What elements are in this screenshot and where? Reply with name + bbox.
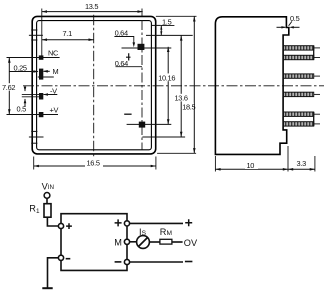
dim 10.16 (167, 47, 169, 125)
seam extension right bottom (13.6 lower reference) (142, 136, 185, 138)
pin NC (39, 55, 44, 59)
pin M lower leader (38, 76, 54, 78)
svg-text:NC: NC (48, 49, 59, 58)
svg-text:13.5: 13.5 (85, 2, 98, 11)
wire minus output (130, 261, 183, 263)
wire R1 to plus input (47, 217, 58, 226)
dim 10 bottom side (214, 156, 216, 172)
wire VIN to R1 (46, 198, 48, 203)
wire M to IS (130, 241, 137, 243)
pin leader horizontal top (122, 47, 172, 49)
terminal minus output (124, 259, 129, 264)
polarity plus mark (126, 53, 131, 60)
wall tick top-right (152, 24, 161, 26)
wall tick bottom-left long (29, 136, 44, 138)
module box (61, 214, 127, 271)
svg-text:3.3: 3.3 (297, 159, 307, 168)
wire IS to RM (149, 241, 160, 243)
dim 0.5 left (22, 94, 42, 96)
wall tick bottom-left short (31, 130, 37, 132)
side pin 5 (283, 112, 314, 116)
dim 13.5 top (42, 11, 143, 13)
pin -V (39, 93, 43, 100)
svg-text:7.62: 7.62 (2, 83, 15, 92)
side pin 1 (283, 46, 314, 50)
svg-text:7.1: 7.1 (63, 29, 73, 38)
svg-text:M: M (53, 67, 59, 76)
wall tick bottom-left short2 (31, 142, 37, 144)
terminal plus input (58, 223, 63, 228)
pin pair 5-6 tip bar (313, 112, 315, 126)
terminal plus output (124, 221, 129, 226)
dim 0.25 line and arrow (10, 71, 38, 73)
label M leader arrow (44, 70, 50, 72)
svg-text:0.5: 0.5 (290, 14, 300, 23)
svg-text:+V: +V (50, 106, 59, 115)
svg-text:-V: -V (50, 86, 57, 95)
pin leader horizontal bottom (127, 123, 172, 125)
wire minus to ground (48, 258, 59, 288)
svg-text:10.16: 10.16 (158, 73, 175, 82)
dim 0.5 side view (277, 26, 286, 28)
polarity minus mark (124, 113, 131, 115)
square pin top-right (138, 44, 145, 50)
pin +V leader (7, 114, 59, 116)
dim 13.6 (180, 35, 182, 137)
pin M (39, 69, 43, 80)
side pin 4 (283, 92, 314, 96)
svg-text:0.25: 0.25 (14, 63, 27, 72)
dim 7.1 (42, 39, 94, 41)
terminal M output (124, 239, 129, 244)
pin NC leader (7, 57, 60, 59)
svg-text:OV: OV (184, 238, 198, 248)
svg-text:0.5: 0.5 (17, 104, 27, 113)
label minus output end (185, 261, 193, 263)
svg-text:18.5: 18.5 (182, 102, 195, 111)
square pin bottom-right (139, 122, 145, 128)
side pin 2 (283, 55, 314, 59)
wall tick top-left short (31, 29, 37, 31)
wire RM to OV (172, 241, 183, 243)
dim 7.62 vertical (8, 58, 10, 115)
seam extension right top (13.6 upper reference) (146, 34, 193, 36)
horizontal centerline (23, 85, 324, 87)
extension line 13.5 left (41, 9, 43, 58)
label plus output inner (115, 219, 122, 226)
resistor RM (160, 239, 172, 244)
side pin 6 (283, 122, 314, 126)
pin -V leader (44, 94, 58, 96)
svg-text:13.6: 13.6 (175, 94, 188, 103)
side pin 3 (283, 74, 314, 78)
svg-text:M: M (114, 237, 122, 247)
top view outer case outline (32, 16, 156, 154)
vertical pin axis line right column (141, 9, 143, 17)
dim 3.3 (288, 168, 315, 170)
side view body (215, 17, 288, 155)
label plus output end (185, 219, 192, 226)
wire plus output (130, 222, 183, 224)
wall tick top-left long (29, 34, 43, 36)
dim 16.5 bottom (33, 157, 35, 170)
dim 18.5 (156, 15, 197, 17)
label minus input (66, 258, 71, 260)
pin +V (39, 112, 44, 117)
wall tick top-left short2 (31, 39, 37, 41)
terminal minus input (58, 255, 63, 260)
VIN terminal (44, 193, 50, 199)
svg-text:10: 10 (247, 161, 255, 170)
current sensor IS (137, 236, 150, 249)
svg-text:16.5: 16.5 (87, 158, 100, 167)
label minus output inner (115, 261, 122, 263)
label plus input (66, 223, 72, 229)
resistor R1 (44, 204, 51, 218)
vertical centerline of top view (93, 15, 95, 159)
pin pair 1-2 tip bar (313, 46, 315, 60)
top view inner case outline (37, 21, 152, 150)
ground bar (42, 287, 52, 289)
